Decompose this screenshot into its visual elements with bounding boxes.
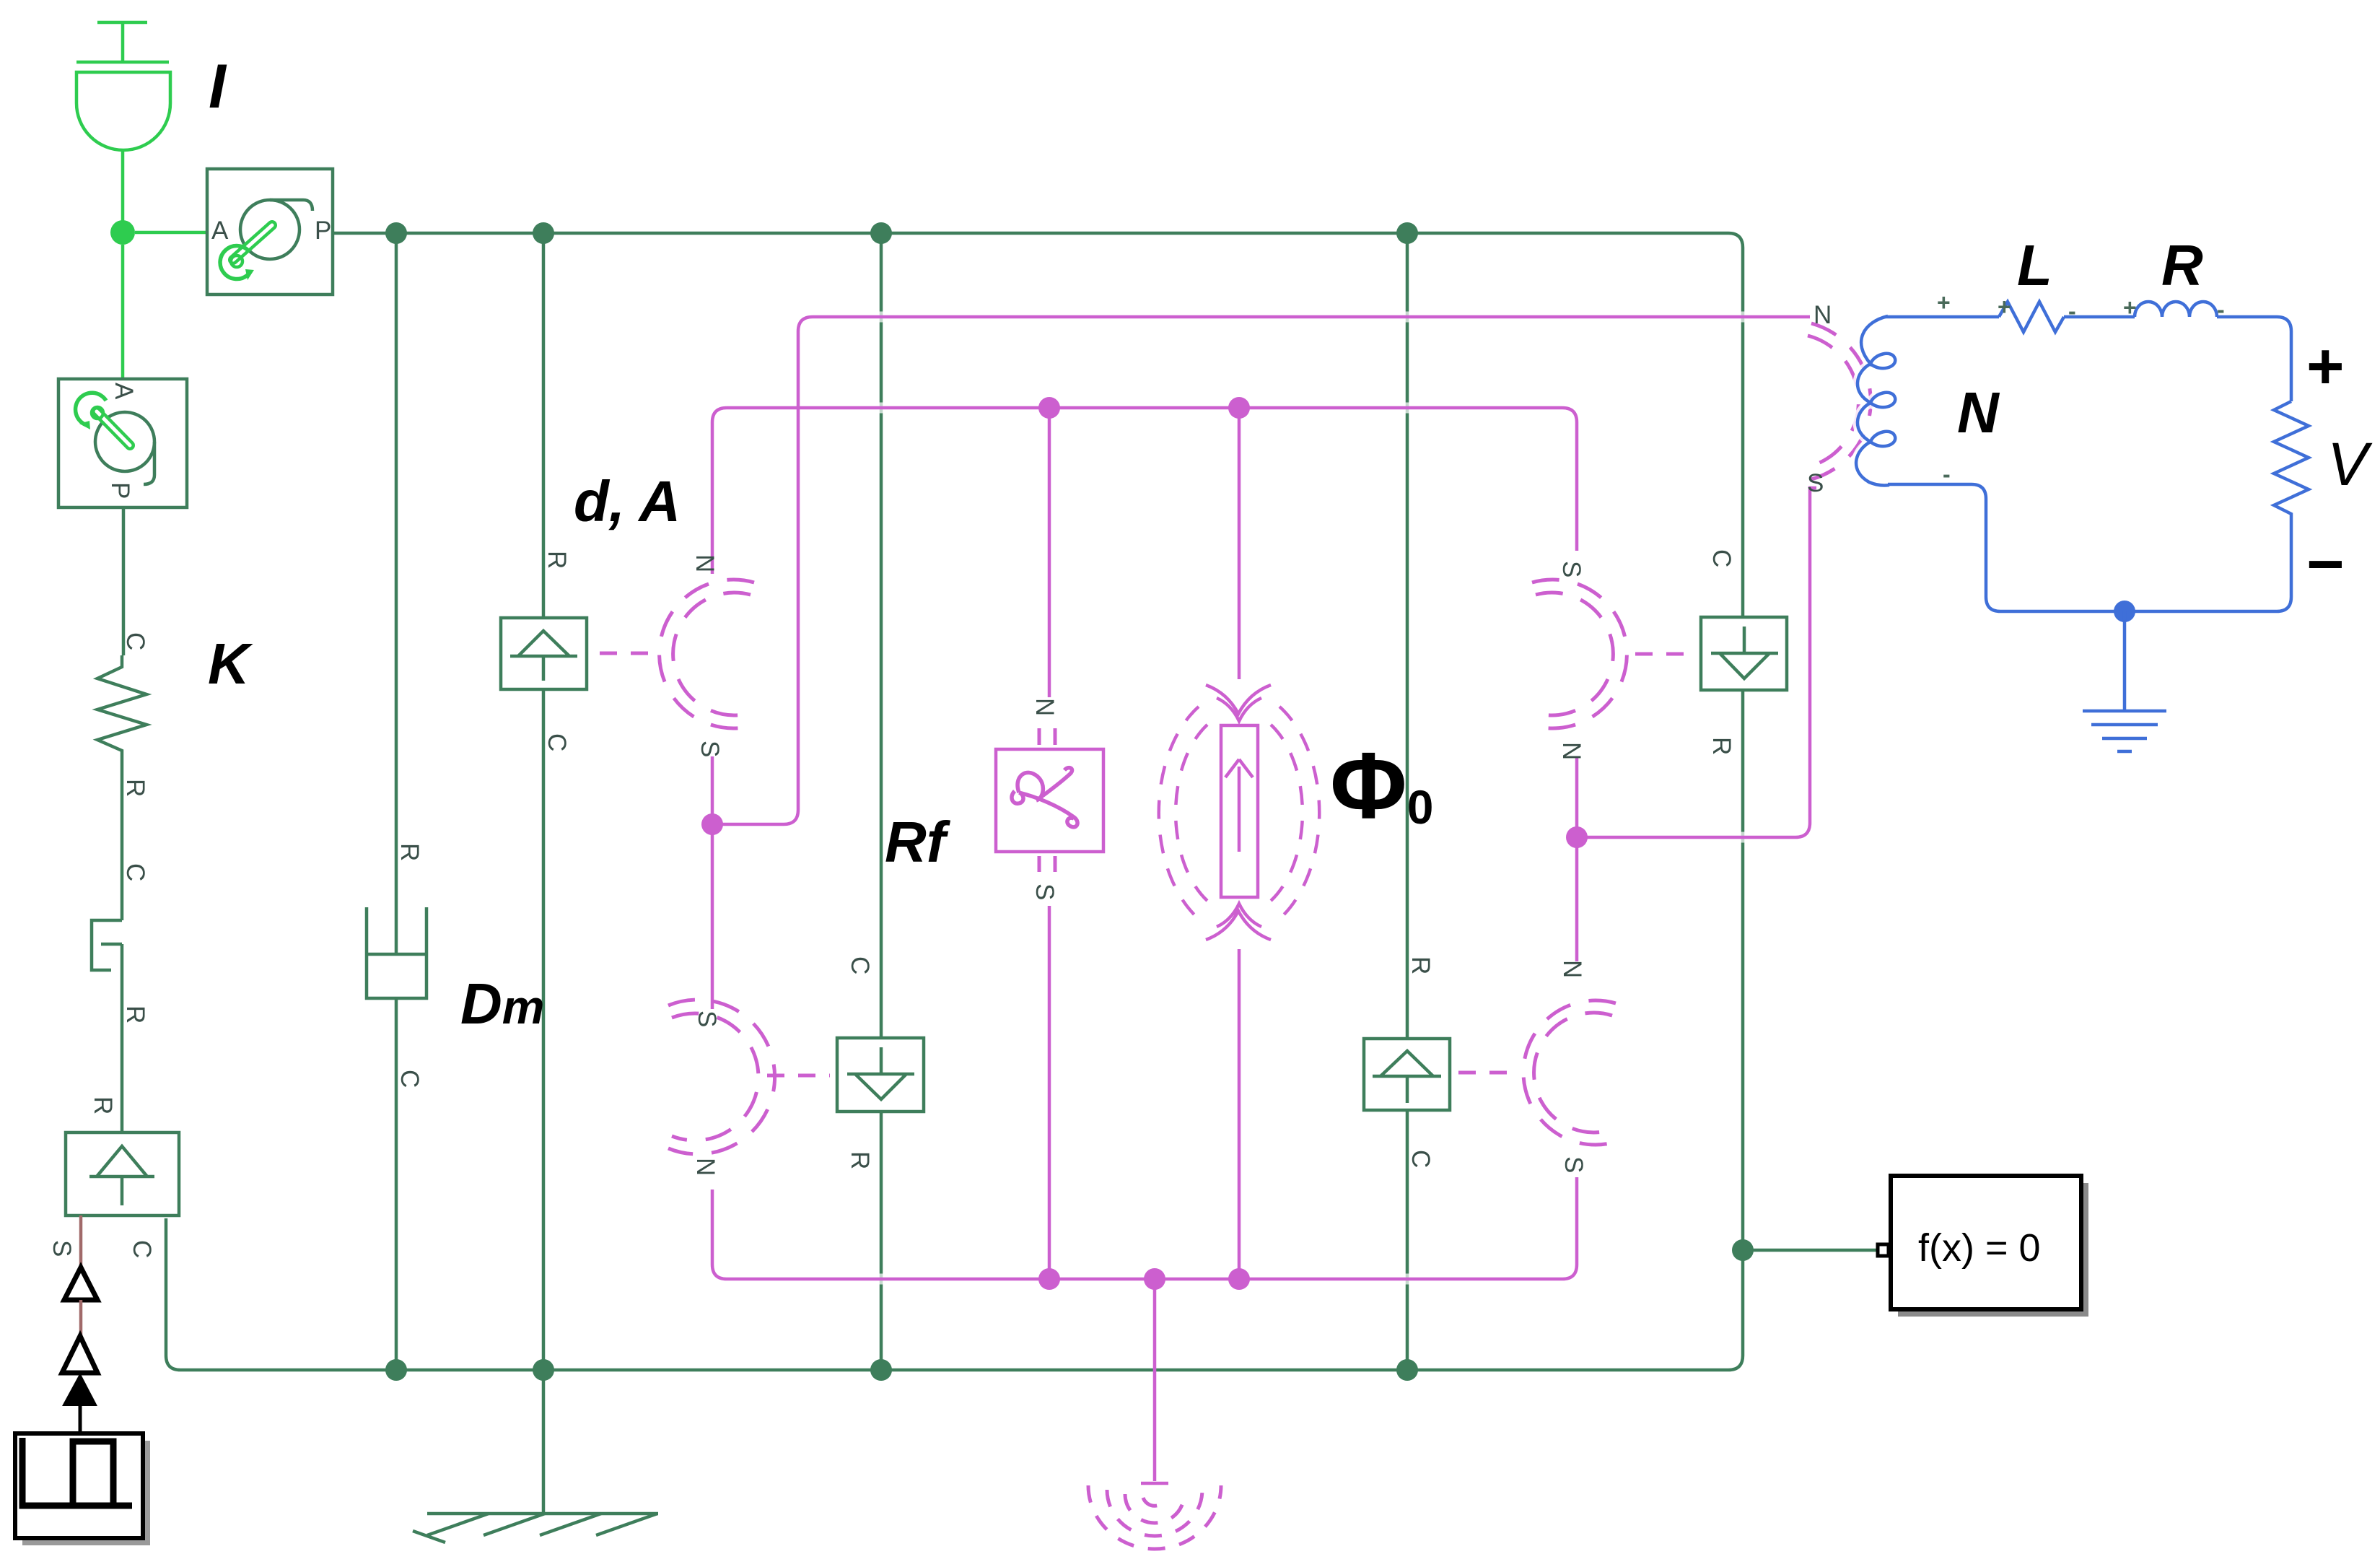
electrical ground xyxy=(2083,711,2166,751)
svg-text:C: C xyxy=(543,733,571,751)
svg-text:R: R xyxy=(846,1151,874,1169)
svg-text:S: S xyxy=(1559,1156,1588,1173)
wire dA rail upper xyxy=(542,233,546,618)
wire flux bus B xyxy=(712,408,1577,551)
force sensor bottom left xyxy=(66,1132,179,1215)
junction dots green xyxy=(385,222,1754,1381)
wire right rail upper xyxy=(1741,248,1745,617)
svg-text:N: N xyxy=(1814,301,1832,329)
svg-text:A: A xyxy=(110,383,138,400)
node blue ground tap xyxy=(2114,601,2135,622)
svg-text:S: S xyxy=(696,741,724,757)
magenta junction dots xyxy=(701,397,1588,1290)
converter triangle 1 xyxy=(64,1267,97,1300)
node bottom bus 2 xyxy=(533,1359,554,1381)
wire node to sensor2 xyxy=(121,245,125,379)
wire ground stem xyxy=(542,1370,546,1514)
small polarity marks xyxy=(1937,289,2225,487)
spring K xyxy=(97,655,146,765)
wire flux bottom bus xyxy=(727,1177,1577,1279)
wire sensor2 to spring xyxy=(122,508,126,655)
wire bottom bus xyxy=(166,1218,1743,1370)
port labels magenta side xyxy=(691,301,1832,1176)
svg-text:Dm: Dm xyxy=(460,972,544,1036)
inductor L (zigzag) xyxy=(1999,302,2064,332)
wire L to R xyxy=(2064,315,2135,319)
wire EM4 N stub xyxy=(1575,837,1579,961)
node bus B flux xyxy=(1228,397,1250,419)
svg-text:P: P xyxy=(106,482,134,499)
node EM1 S junction xyxy=(701,813,723,835)
svg-text:d, A: d, A xyxy=(574,469,681,533)
node top bus 2 xyxy=(533,222,554,244)
resistor V zigzag xyxy=(2274,401,2309,525)
wire flux source top xyxy=(1238,408,1241,679)
svg-text:C: C xyxy=(1707,549,1736,567)
svg-text:R: R xyxy=(121,1005,149,1023)
node bottom bus 1 xyxy=(385,1359,407,1381)
wire ground stem blue xyxy=(2123,611,2127,711)
wire halos xyxy=(712,317,1810,1279)
svg-text:C: C xyxy=(1406,1150,1435,1168)
wire link to EM5 xyxy=(1577,488,1816,837)
magnetic ground xyxy=(1088,1485,1221,1549)
svg-text:C: C xyxy=(846,956,874,974)
big labels xyxy=(208,52,2373,1036)
svg-text:N: N xyxy=(691,1158,719,1176)
port labels green side xyxy=(48,549,1736,1258)
node bottom bus 4 xyxy=(1396,1359,1418,1381)
svg-text:R: R xyxy=(1707,737,1736,755)
wire hardstop to force sensor xyxy=(121,944,124,1132)
svg-text:−: − xyxy=(2306,528,2345,601)
wire spring to hardstop xyxy=(121,765,124,920)
force actuator right rail xyxy=(1701,617,1787,690)
svg-text:S: S xyxy=(1031,883,1059,900)
svg-text:S: S xyxy=(693,1011,721,1027)
hard stop xyxy=(92,920,122,970)
node top bus 4 xyxy=(1396,222,1418,244)
wire damper rail upper xyxy=(395,233,398,954)
EM2 dashes to box xyxy=(767,1074,830,1078)
node bottom Rf xyxy=(1038,1268,1060,1290)
svg-text:C: C xyxy=(395,1070,424,1088)
node top bus 1 xyxy=(385,222,407,244)
svg-text:S: S xyxy=(1807,469,1824,497)
converter triangle 2 xyxy=(62,1336,97,1373)
wire EM3 N stub xyxy=(1575,756,1579,837)
svg-text:K: K xyxy=(208,632,253,696)
resistor R (bumps) xyxy=(2135,302,2217,317)
wire dA rail lower xyxy=(542,689,546,1370)
svg-text:N: N xyxy=(1031,698,1059,716)
wire EM2 N stub xyxy=(712,1190,727,1279)
svg-text:P: P xyxy=(315,217,331,245)
EM converter 2 arcs xyxy=(668,1000,775,1154)
wire node to sensor1 xyxy=(135,231,207,235)
force actuator left mid xyxy=(837,1038,924,1112)
EM converter 4 arcs xyxy=(1523,1000,1616,1145)
BLUE_NET xyxy=(1856,302,2309,751)
svg-text:+: + xyxy=(1937,289,1951,315)
pulse generator block xyxy=(15,1433,150,1545)
svg-text:R: R xyxy=(1406,956,1435,974)
reluctance Rf block xyxy=(996,728,1103,872)
node top bus 3 xyxy=(870,222,892,244)
MAGENTA_NET xyxy=(712,317,1816,1483)
svg-text:N: N xyxy=(1558,960,1586,978)
wire left mid rail upper xyxy=(880,233,883,1038)
wire right rail lower xyxy=(1741,690,1745,1356)
node mass xyxy=(110,220,135,245)
flux source PHI0 xyxy=(1159,685,1319,940)
svg-text:V: V xyxy=(2327,430,2373,498)
wire left mid rail lower xyxy=(880,1112,883,1370)
svg-text:+: + xyxy=(2306,331,2345,403)
PS converter chain xyxy=(62,1215,97,1433)
wire brown 2 xyxy=(79,1300,83,1336)
wire signal xyxy=(79,1406,82,1433)
svg-text:Φ0: Φ0 xyxy=(1330,733,1433,838)
solver block fx0 xyxy=(1878,1176,2088,1317)
svg-text:R: R xyxy=(2161,233,2203,297)
svg-text:R: R xyxy=(89,1096,117,1114)
force actuator right mid xyxy=(1364,1039,1450,1110)
svg-text:N: N xyxy=(691,554,719,572)
svg-text:Rf: Rf xyxy=(885,810,951,874)
force actuator dA xyxy=(501,618,587,689)
svg-text:-: - xyxy=(2217,297,2225,323)
wire R to corner xyxy=(2217,317,2291,401)
wire top bus xyxy=(333,233,1743,248)
node bottom bus 3 xyxy=(870,1359,892,1381)
wire Rf bottom xyxy=(1048,906,1051,1279)
signal arrowhead xyxy=(62,1373,97,1406)
EM1 dashes to box xyxy=(600,652,651,655)
node EM3 EM4 junction xyxy=(1566,826,1588,848)
svg-text:-: - xyxy=(1943,461,1951,487)
wire S brown xyxy=(79,1215,83,1267)
svg-text:S: S xyxy=(48,1240,76,1257)
wire damper rail lower xyxy=(395,998,398,1370)
wire EM1 S stub xyxy=(711,756,714,824)
svg-text:I: I xyxy=(209,52,227,121)
mechanical ground xyxy=(413,1514,658,1542)
svg-text:+: + xyxy=(2123,294,2137,320)
wire flux source bottom xyxy=(1238,949,1241,1279)
svg-text:R: R xyxy=(543,551,571,569)
EM3 dashes to box xyxy=(1635,652,1694,656)
wire V bottom loop xyxy=(1888,484,2291,611)
wire magnetic ground stem xyxy=(1141,1279,1168,1483)
node bus B Rf xyxy=(1038,397,1060,419)
coil N xyxy=(1856,316,1895,486)
svg-text:N: N xyxy=(1557,742,1585,760)
wire right mid rail upper xyxy=(1406,233,1409,1039)
wire flux bus A xyxy=(712,317,1810,824)
EM4 dashes to box xyxy=(1458,1071,1519,1075)
wire coil top lead xyxy=(1885,315,1999,319)
svg-text:L: L xyxy=(2017,233,2052,297)
node bottom flux xyxy=(1228,1268,1250,1290)
wire Rf top xyxy=(1048,408,1051,697)
svg-text:S: S xyxy=(1557,561,1585,577)
svg-text:+: + xyxy=(1998,294,2011,320)
EM converter 5 arcs xyxy=(1808,323,1871,479)
EM converter 1 arcs xyxy=(660,580,754,728)
node solver tap xyxy=(1732,1239,1754,1261)
damper Dm xyxy=(367,907,426,998)
GREEN_NET xyxy=(92,233,1876,1514)
svg-text:N: N xyxy=(1957,380,2000,445)
svg-text:f(x) = 0: f(x) = 0 xyxy=(1918,1226,2041,1270)
node bottom ground xyxy=(1144,1268,1165,1290)
sensor U2 (motion sensor rotated) xyxy=(58,379,187,507)
svg-text:C: C xyxy=(121,632,149,650)
svg-text:R: R xyxy=(121,779,149,797)
svg-text:R: R xyxy=(395,843,424,861)
svg-text:C: C xyxy=(121,863,149,881)
mass I xyxy=(76,22,170,221)
sensor U1 (motion sensor A-P) xyxy=(207,169,333,294)
wire solver link xyxy=(1743,1249,1876,1252)
wire EM1 N stub xyxy=(711,422,714,574)
svg-text:C: C xyxy=(128,1240,156,1258)
wire EM2 S stub xyxy=(711,824,714,1009)
EM converter 3 arcs xyxy=(1532,580,1627,728)
wire right mid rail lower xyxy=(1406,1110,1409,1370)
svg-text:A: A xyxy=(211,217,229,245)
svg-text:-: - xyxy=(2068,298,2076,324)
